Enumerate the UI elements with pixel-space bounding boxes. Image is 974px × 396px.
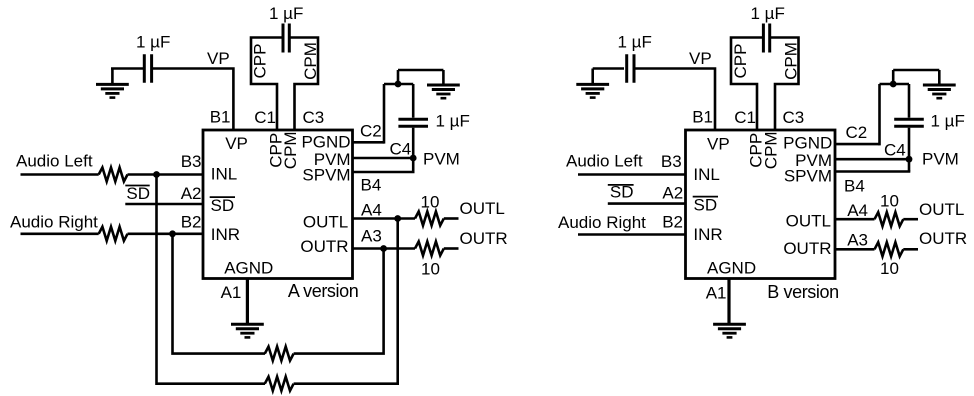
svg-text:B2: B2: [662, 213, 683, 232]
svg-text:OUTR: OUTR: [300, 237, 348, 256]
wire to right ground (A): [398, 69, 443, 72]
wire OUTR to net label (B): [903, 248, 918, 251]
wire AGND pin A1 (A): [246, 279, 249, 325]
wire SPVM riser to PVM (B): [908, 159, 911, 172]
wire feedback INL to OUTL left+bottom (A): [157, 175, 266, 384]
svg-text:Audio Right: Audio Right: [10, 213, 98, 232]
wire PGND riser (A): [383, 84, 386, 144]
wire OUTL to net label (A): [444, 217, 459, 220]
wire INL to pin B3 (A): [128, 173, 204, 176]
capacitor 1uF VP decoupling (A): [144, 54, 151, 83]
wire to right ground (B): [893, 69, 939, 72]
svg-text:INL: INL: [693, 165, 719, 184]
wire junction riser to ground (A): [397, 70, 400, 84]
wire cap bottom lead (A): [412, 128, 415, 158]
svg-text:PVM: PVM: [922, 149, 959, 168]
ground symbol AGND (B): [713, 324, 746, 337]
svg-text:C4: C4: [390, 140, 412, 159]
svg-text:CPM: CPM: [781, 42, 800, 80]
capacitor 1uF fly cap (B): [763, 24, 769, 53]
wire cap top lead (B): [908, 84, 911, 118]
svg-text:CPM: CPM: [762, 131, 781, 169]
wire SPVM pin B4 out (A): [353, 171, 415, 174]
wire SPVM pin B4 out (B): [835, 170, 910, 173]
capacitor C2 1uF PVM (B): [894, 119, 924, 126]
svg-text:VP: VP: [225, 134, 248, 153]
wire PGND pin C2 out (A): [353, 141, 385, 144]
svg-text:Audio Left: Audio Left: [16, 152, 93, 171]
svg-text:B2: B2: [181, 213, 202, 232]
svg-text:10: 10: [421, 193, 440, 212]
svg-text:VP: VP: [707, 135, 730, 154]
svg-text:B3: B3: [661, 152, 682, 171]
svg-text:A3: A3: [847, 230, 868, 249]
svg-text:A version: A version: [288, 281, 358, 301]
wire CPM loop (B): [769, 38, 799, 132]
svg-text:C3: C3: [783, 108, 805, 127]
wire SPVM riser to PVM (A): [412, 158, 415, 172]
svg-text:A1: A1: [706, 283, 727, 302]
wire PVM pin C4 out (A): [353, 157, 415, 160]
svg-text:SD: SD: [694, 195, 718, 214]
svg-text:PGND: PGND: [301, 132, 350, 151]
svg-text:B3: B3: [181, 152, 202, 171]
wire Audio Left in (A): [21, 173, 99, 176]
svg-text:CPP: CPP: [731, 44, 750, 79]
ground symbol left (A): [96, 84, 129, 97]
resistor input right (A): [99, 227, 128, 241]
svg-text:C2: C2: [360, 122, 382, 141]
wire feedback INL to OUTL right (A): [294, 219, 398, 384]
wire feedback INR to OUTR right (A): [294, 249, 384, 354]
ground symbol right (B): [923, 85, 956, 98]
svg-text:INL: INL: [211, 164, 237, 183]
resistor feedback R (INR-OUTR): [265, 347, 294, 361]
svg-text:Audio Right: Audio Right: [558, 213, 646, 232]
wire cap bottom lead (B): [908, 128, 911, 160]
wire OUTR to net label (A): [444, 247, 459, 250]
wire OUTL pin A4 (A): [353, 217, 416, 220]
svg-text:PVM: PVM: [423, 149, 460, 168]
node junction PVM (B): [906, 156, 913, 163]
svg-text:OUTL: OUTL: [919, 200, 964, 219]
wire SD in (B): [608, 202, 686, 205]
node junction INL (A): [153, 171, 160, 178]
ground symbol right (A): [427, 85, 460, 98]
wire AGND pin A1 (B): [727, 279, 730, 325]
svg-text:OUTL: OUTL: [786, 211, 831, 230]
wire cap top lead (A): [412, 84, 415, 118]
svg-text:AGND: AGND: [707, 259, 756, 278]
wire VP rail right with drop to pin B1 (B): [633, 69, 715, 132]
node junction PGND (A): [395, 81, 402, 88]
wire OUTL pin A4 (B): [835, 218, 875, 221]
svg-text:PGND: PGND: [783, 133, 832, 152]
capacitor 1uF VP decoupling (B): [627, 54, 634, 83]
svg-text:1 µF: 1 µF: [931, 112, 965, 131]
op-amp U1 (A version IC body): [203, 130, 353, 279]
svg-text:CPP: CPP: [251, 44, 270, 79]
svg-text:OUTR: OUTR: [919, 229, 967, 248]
wire VP rail left (B): [593, 67, 624, 70]
svg-text:1 µF: 1 µF: [618, 33, 652, 52]
svg-text:SPVM: SPVM: [302, 165, 350, 184]
svg-text:Audio Left: Audio Left: [566, 152, 643, 171]
svg-text:1 µF: 1 µF: [136, 33, 170, 52]
svg-text:OUTL: OUTL: [303, 213, 348, 232]
wire VP rail left (ground to C decoupling cap): [111, 67, 143, 70]
svg-text:A2: A2: [181, 184, 202, 203]
svg-text:VP: VP: [689, 49, 712, 68]
svg-text:CPM: CPM: [301, 42, 320, 80]
wire PGND riser (B): [878, 84, 881, 145]
svg-text:C4: C4: [884, 141, 906, 160]
svg-text:B4: B4: [361, 175, 382, 194]
svg-text:C2: C2: [846, 123, 868, 142]
wire PVM pin C4 out (B): [835, 158, 910, 161]
node junction PVM (A): [410, 155, 417, 162]
svg-text:VP: VP: [207, 49, 230, 68]
svg-text:10: 10: [880, 191, 899, 210]
svg-text:C1: C1: [734, 108, 756, 127]
svg-text:10: 10: [421, 259, 440, 278]
svg-text:B4: B4: [844, 177, 865, 196]
node junction PGND (B): [890, 81, 897, 88]
wire PGND top link (A): [384, 83, 413, 86]
resistor 10 OUTR (A): [415, 242, 444, 256]
svg-text:SPVM: SPVM: [784, 166, 832, 185]
svg-text:1 µF: 1 µF: [269, 4, 303, 23]
capacitor 1uF fly cap (A): [283, 24, 289, 53]
svg-text:A2: A2: [662, 183, 683, 202]
wire OUTL to net label (B): [903, 218, 918, 221]
svg-text:AGND: AGND: [224, 259, 273, 278]
node junction OUTL (A): [394, 215, 401, 222]
svg-text:B1: B1: [692, 108, 713, 127]
wire INR to pin B2 (A): [128, 233, 204, 236]
wire CPP loop (B): [731, 38, 764, 132]
svg-text:A3: A3: [361, 227, 382, 246]
svg-text:B1: B1: [210, 108, 231, 127]
resistor input left (A): [99, 168, 128, 182]
wire PGND pin C2 out (B): [835, 143, 880, 146]
svg-text:OUTR: OUTR: [783, 239, 831, 258]
svg-text:1 µF: 1 µF: [436, 112, 470, 131]
wire junction riser to ground (B): [892, 70, 895, 84]
svg-text:INR: INR: [211, 225, 240, 244]
wire SD in (A): [125, 203, 203, 206]
svg-text:C3: C3: [303, 108, 325, 127]
resistor feedback R (INL-OUTL): [265, 377, 294, 391]
wire Audio Left in (B): [578, 173, 686, 176]
wire feedback INR to OUTR left+bottom (A): [173, 234, 266, 354]
wire CPP loop (pin C1 up-left to fly cap): [251, 38, 284, 132]
svg-text:A4: A4: [361, 200, 382, 219]
wire Audio Right in (B): [578, 233, 686, 236]
wire CPM loop (pin C3 up-right to fly cap): [288, 38, 318, 132]
svg-text:10: 10: [880, 259, 899, 278]
ground stub left (A): [111, 69, 114, 85]
node junction INR (A): [169, 230, 176, 237]
svg-text:OUTL: OUTL: [460, 199, 505, 218]
ground stub right (B): [938, 70, 941, 85]
wire OUTR pin A3 (B): [835, 248, 875, 251]
svg-text:1 µF: 1 µF: [751, 4, 785, 23]
svg-text:C1: C1: [254, 108, 276, 127]
resistor 10 OUTL (A): [415, 212, 444, 226]
ground stub left (B): [591, 69, 594, 85]
ground symbol left (B): [576, 84, 609, 97]
resistor 10 OUTR (B): [875, 242, 904, 256]
svg-text:A4: A4: [847, 201, 868, 220]
op-amp U2 (B version IC body): [686, 130, 836, 279]
svg-text:SD: SD: [126, 184, 150, 203]
node junction OUTR (A): [380, 245, 387, 252]
svg-text:SD: SD: [211, 196, 235, 215]
svg-text:A1: A1: [221, 283, 242, 302]
wire PGND top link (B): [880, 83, 910, 86]
ground symbol AGND (A): [231, 324, 264, 337]
svg-text:CPM: CPM: [281, 131, 300, 169]
resistor 10 OUTL (B): [875, 212, 904, 226]
capacitor C2 1uF PVM (A): [398, 119, 428, 126]
svg-text:OUTR: OUTR: [460, 229, 508, 248]
wire Audio Right in (A): [21, 233, 99, 236]
svg-text:INR: INR: [693, 225, 722, 244]
svg-text:B version: B version: [767, 282, 838, 302]
wire VP rail right with drop to pin B1: [152, 69, 233, 132]
ground stub right (A): [442, 70, 445, 85]
wire OUTR pin A3 (A): [353, 247, 416, 250]
